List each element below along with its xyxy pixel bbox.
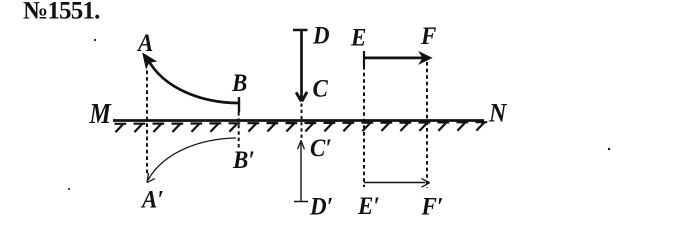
arrow object D-C: top T-bar — [293, 29, 308, 32]
mirror line M-N — [113, 119, 484, 122]
arrow object E-F: shaft — [364, 57, 424, 60]
thin arrowhead at A' — [147, 173, 155, 183]
tick at E — [363, 51, 365, 66]
arrowhead at F — [420, 52, 432, 64]
arrow object D-C: shaft — [300, 30, 303, 102]
svg-text:D: D — [312, 21, 330, 49]
svg-text:E: E — [350, 23, 366, 51]
svg-text:№1551.: №1551. — [23, 0, 100, 25]
svg-text:A′: A′ — [140, 185, 164, 213]
stray speck right — [608, 148, 610, 150]
dashed projection through C and C' — [301, 104, 303, 140]
hatch marks under mirror — [115, 122, 488, 132]
svg-text:M: M — [89, 98, 113, 129]
dashed projection line through B and B' — [238, 112, 240, 149]
thin arrowhead at F' — [422, 179, 430, 188]
arrowhead at C — [296, 92, 307, 101]
mirror-image thin arrow E'-F': shaft — [364, 182, 426, 184]
stray speck top-left — [94, 39, 96, 41]
tick at B — [238, 97, 240, 112]
svg-text:F: F — [420, 22, 436, 50]
stray speck bottom-left — [68, 188, 70, 190]
thin arrowhead at C' — [298, 140, 305, 149]
dashed projection through F and F' — [426, 62, 428, 188]
arrowhead at A — [143, 53, 156, 68]
svg-text:C′: C′ — [310, 134, 332, 162]
svg-text:B: B — [231, 69, 247, 97]
dashed projection through E and E' — [363, 66, 365, 187]
svg-text:D′: D′ — [309, 192, 333, 220]
svg-text:N: N — [488, 97, 508, 128]
dashed projection line through A and A' — [146, 71, 148, 175]
mirror-image thin curve B'-A' — [148, 138, 236, 180]
svg-text:F′: F′ — [421, 192, 444, 220]
bottom T-bar at D' — [294, 201, 308, 203]
mirror-image thin arrow C'-D': shaft — [300, 143, 302, 202]
svg-text:A: A — [136, 29, 153, 57]
curved arrow object A-B — [147, 58, 239, 103]
svg-text:C: C — [313, 74, 329, 102]
svg-text:E′: E′ — [357, 192, 380, 220]
svg-text:B′: B′ — [232, 146, 255, 174]
